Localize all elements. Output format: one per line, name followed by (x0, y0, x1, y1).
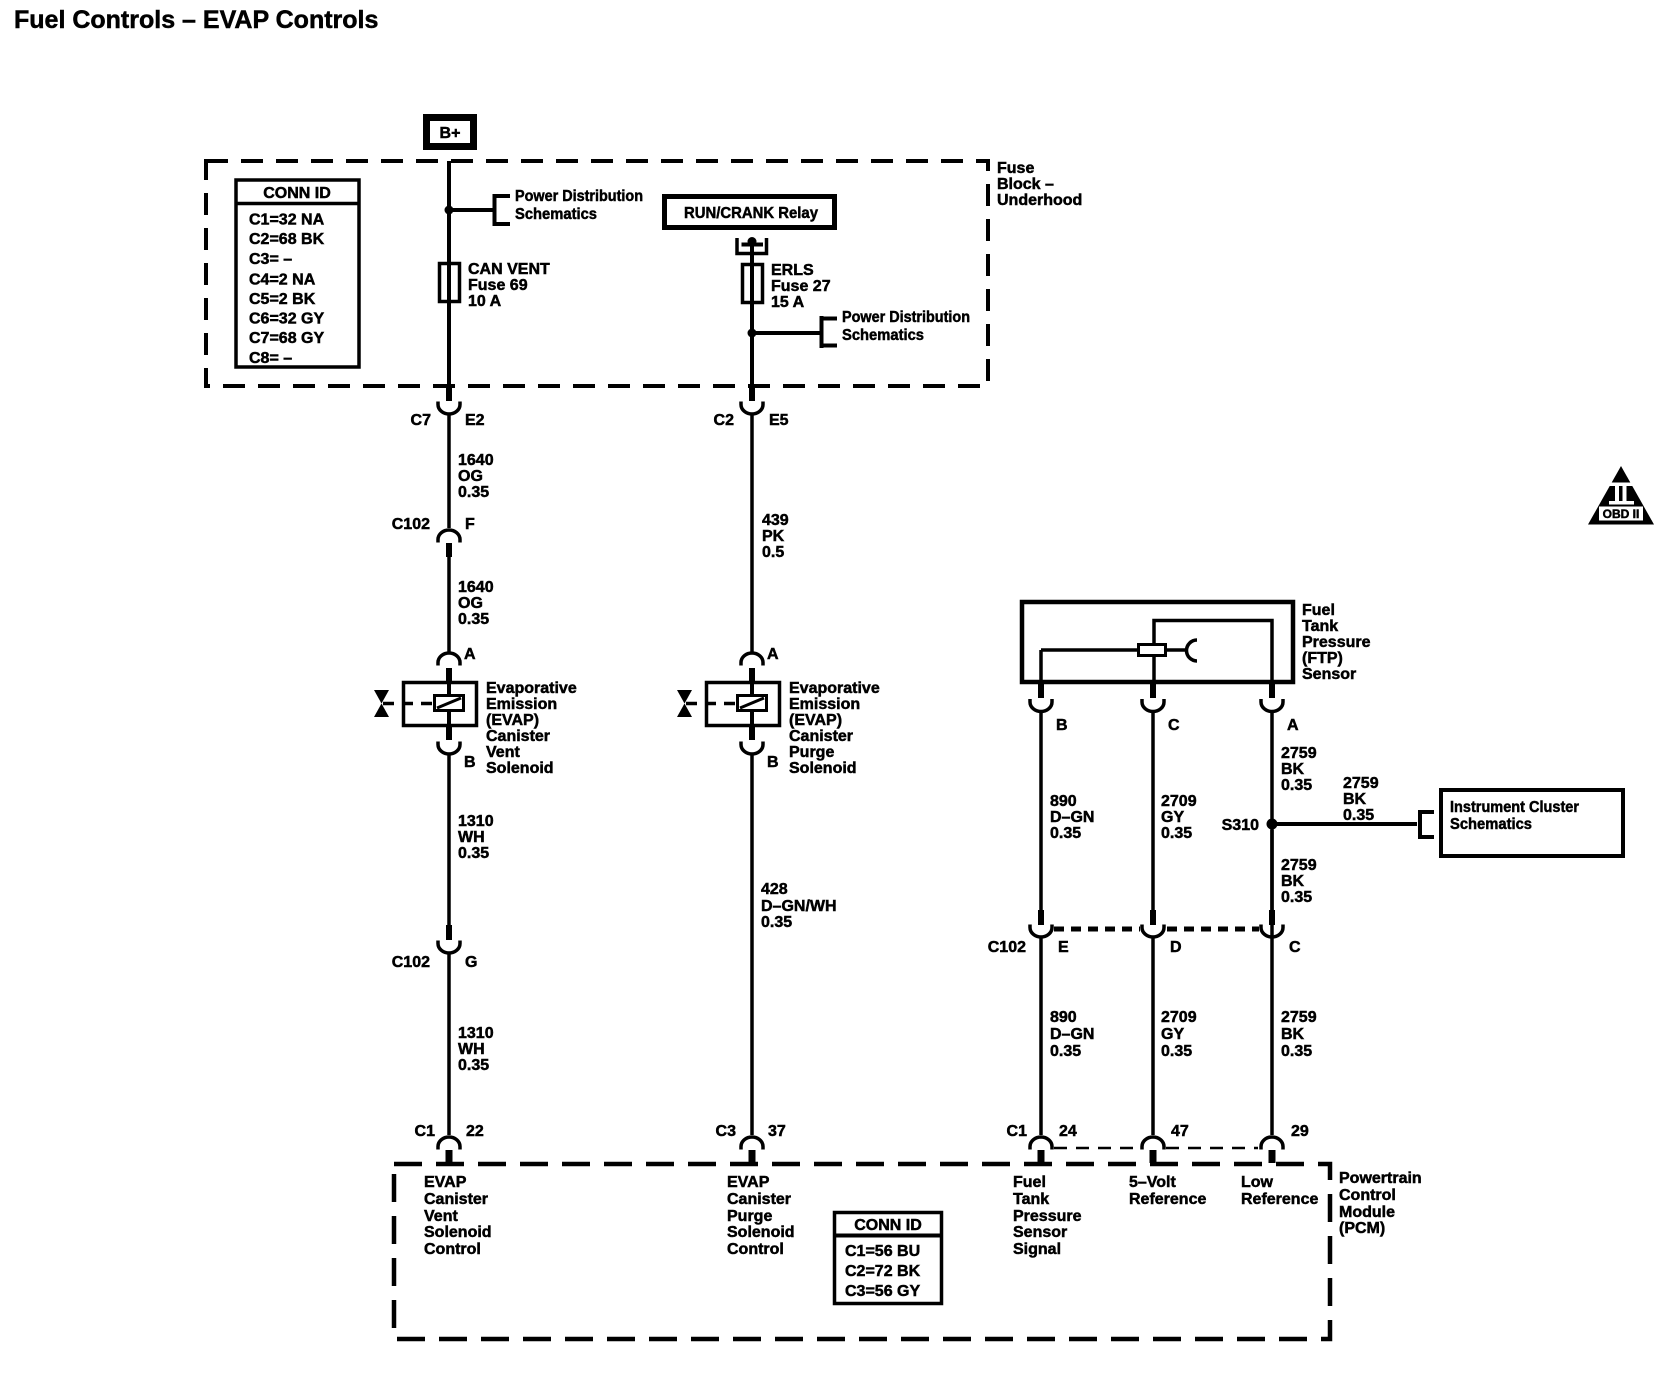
svg-text:E5: E5 (769, 412, 789, 429)
svg-text:BK: BK (1343, 791, 1367, 808)
svg-text:B+: B+ (440, 125, 461, 142)
svg-text:Solenoid: Solenoid (789, 760, 857, 777)
pin function: EVAP canister vent solenoid control (424, 1174, 492, 1258)
svg-text:C4=2 NA: C4=2 NA (249, 272, 316, 289)
svg-text:0.35: 0.35 (1050, 1043, 1081, 1060)
svg-text:Module: Module (1339, 1204, 1395, 1221)
svg-text:Block –: Block – (997, 176, 1054, 193)
pin function: low reference (1241, 1174, 1318, 1208)
svg-text:(PCM): (PCM) (1339, 1220, 1385, 1237)
svg-text:D–GN/WH: D–GN/WH (761, 898, 837, 915)
svg-text:C1: C1 (1007, 1123, 1028, 1140)
wire 890 D-GN (lower) (1041, 937, 1094, 1135)
connector C102/E (988, 910, 1069, 956)
svg-text:E: E (1058, 939, 1069, 956)
svg-text:C2: C2 (714, 412, 735, 429)
svg-text:(EVAP): (EVAP) (789, 712, 842, 729)
PCM label (1339, 1170, 1422, 1237)
svg-text:5–Volt: 5–Volt (1129, 1174, 1177, 1191)
svg-text:D–GN: D–GN (1050, 809, 1094, 826)
svg-text:47: 47 (1171, 1123, 1189, 1140)
wire 1310 WH (lower) (449, 953, 494, 1135)
svg-text:29: 29 (1291, 1123, 1309, 1140)
wire 439 PK (752, 414, 789, 652)
connector C (FTP) (1142, 684, 1180, 734)
svg-text:C: C (1289, 939, 1301, 956)
svg-text:439: 439 (762, 512, 789, 529)
wire relay to ERLS fuse (750, 241, 754, 384)
EVAP canister purge solenoid (677, 680, 880, 777)
svg-text:GY: GY (1161, 809, 1184, 826)
svg-text:Powertrain: Powertrain (1339, 1170, 1422, 1187)
svg-text:WH: WH (458, 829, 485, 846)
svg-text:G: G (465, 954, 477, 971)
svg-text:Fuse 27: Fuse 27 (771, 278, 831, 295)
wire 2759 BK (upper) (1272, 711, 1317, 910)
svg-text:D–GN: D–GN (1050, 1026, 1094, 1043)
svg-text:Emission: Emission (486, 696, 557, 713)
svg-text:0.35: 0.35 (458, 484, 489, 501)
svg-text:22: 22 (466, 1123, 484, 1140)
wire 1640 OG (upper) (449, 414, 494, 528)
fuel tank pressure (FTP) sensor (1022, 602, 1371, 683)
svg-text:0.35: 0.35 (1281, 1043, 1312, 1060)
svg-text:Schematics: Schematics (842, 327, 924, 344)
svg-text:E2: E2 (465, 412, 485, 429)
svg-text:Solenoid: Solenoid (424, 1224, 492, 1241)
svg-text:0.35: 0.35 (458, 611, 489, 628)
svg-text:C1=56 BU: C1=56 BU (845, 1243, 920, 1260)
svg-text:Emission: Emission (789, 696, 860, 713)
svg-text:Sensor: Sensor (1302, 666, 1356, 683)
svg-text:ERLS: ERLS (771, 262, 814, 279)
svg-text:C102: C102 (392, 954, 430, 971)
svg-text:C2=72 BK: C2=72 BK (845, 1263, 921, 1280)
svg-text:10 A: 10 A (468, 293, 502, 310)
svg-text:C102: C102 (988, 939, 1026, 956)
svg-text:B: B (767, 754, 779, 771)
EVAP canister vent solenoid (374, 680, 577, 777)
svg-text:890: 890 (1050, 1009, 1077, 1026)
CONN ID table (PCM) (835, 1213, 942, 1304)
svg-text:(FTP): (FTP) (1302, 650, 1343, 667)
svg-text:A: A (1287, 717, 1299, 734)
junction dot left (445, 206, 454, 215)
wire branch to power distribution reference (middle) (752, 331, 821, 335)
svg-text:Control: Control (424, 1241, 481, 1258)
svg-text:WH: WH (458, 1041, 485, 1058)
pin function: fuel tank pressure sensor signal (1013, 1174, 1082, 1258)
svg-text:Tank: Tank (1302, 618, 1338, 635)
svg-text:1640: 1640 (458, 579, 494, 596)
svg-text:Sensor: Sensor (1013, 1224, 1067, 1241)
connector A (vent solenoid) (438, 646, 476, 682)
svg-text:Schematics: Schematics (515, 206, 597, 223)
wire CAN VENT fuse to C7 (446, 384, 452, 401)
RUN/CRANK relay (665, 197, 835, 228)
svg-text:D: D (1170, 939, 1182, 956)
wire 2709 GY (upper) (1153, 711, 1197, 910)
connector B (purge solenoid) (741, 727, 779, 771)
svg-text:1640: 1640 (458, 452, 494, 469)
B+ power symbol (427, 118, 474, 147)
pin function: 5-volt reference (1129, 1174, 1206, 1208)
svg-text:Power Distribution: Power Distribution (842, 309, 970, 326)
svg-text:Fuel: Fuel (1013, 1174, 1046, 1191)
svg-text:C7: C7 (411, 412, 432, 429)
svg-text:C3= –: C3= – (249, 251, 292, 268)
svg-text:Fuse 69: Fuse 69 (468, 277, 528, 294)
wire branch to power distribution reference (449, 208, 494, 212)
pin function: EVAP canister purge solenoid control (727, 1174, 795, 1258)
svg-text:PK: PK (762, 528, 785, 545)
svg-text:(EVAP): (EVAP) (486, 712, 539, 729)
svg-text:Solenoid: Solenoid (486, 760, 554, 777)
svg-text:GY: GY (1161, 1026, 1184, 1043)
dashed connector line C102 row (1054, 927, 1259, 932)
svg-text:2709: 2709 (1161, 793, 1197, 810)
svg-text:A: A (767, 646, 779, 663)
svg-text:CAN VENT: CAN VENT (468, 261, 550, 278)
svg-text:C3: C3 (716, 1123, 737, 1140)
power distribution schematics reference (middle) (822, 309, 971, 348)
wire 2709 GY (lower) (1153, 937, 1197, 1135)
connector D (C102) (1142, 910, 1182, 956)
svg-text:CONN ID: CONN ID (854, 1217, 922, 1234)
svg-text:C3=56 GY: C3=56 GY (845, 1283, 920, 1300)
splice S310 (1222, 817, 1278, 834)
svg-text:C102: C102 (392, 516, 430, 533)
connector 47 (PCM) (1142, 1123, 1189, 1163)
svg-text:0.35: 0.35 (458, 845, 489, 862)
connector 29 (PCM) (1261, 1123, 1309, 1163)
svg-text:Pressure: Pressure (1013, 1208, 1082, 1225)
svg-text:C7=68 GY: C7=68 GY (249, 330, 324, 347)
svg-text:890: 890 (1050, 793, 1077, 810)
svg-text:Solenoid: Solenoid (727, 1224, 795, 1241)
OBD II symbol (1588, 466, 1654, 525)
svg-text:0.35: 0.35 (1343, 807, 1374, 824)
wire ERLS fuse to C2 (749, 384, 755, 401)
svg-text:BK: BK (1281, 1026, 1305, 1043)
svg-text:0.5: 0.5 (762, 544, 784, 561)
svg-text:C1: C1 (415, 1123, 436, 1140)
svg-text:BK: BK (1281, 761, 1305, 778)
connector C7/E2 (411, 402, 485, 430)
svg-text:Reference: Reference (1129, 1191, 1206, 1208)
fuse block underhood dashed box (206, 161, 988, 386)
svg-text:Tank: Tank (1013, 1191, 1049, 1208)
svg-text:Schematics: Schematics (1450, 816, 1532, 833)
svg-text:C: C (1168, 717, 1180, 734)
svg-text:Purge: Purge (789, 744, 834, 761)
connector C (C102) (1261, 910, 1301, 956)
svg-text:0.35: 0.35 (761, 914, 792, 931)
svg-text:37: 37 (768, 1123, 786, 1140)
fuse block label (997, 160, 1082, 209)
svg-text:Control: Control (727, 1241, 784, 1258)
svg-text:C8= –: C8= – (249, 350, 292, 367)
dashed connector line PCM row (1054, 1147, 1258, 1150)
svg-text:Instrument Cluster: Instrument Cluster (1450, 799, 1579, 816)
wire 890 D-GN (upper) (1041, 711, 1094, 910)
svg-text:EVAP: EVAP (424, 1174, 467, 1191)
connector C1/24 (PCM) (1007, 1123, 1077, 1163)
wire 1310 WH (upper) (449, 753, 494, 925)
svg-text:15 A: 15 A (771, 294, 805, 311)
svg-text:0.35: 0.35 (1281, 777, 1312, 794)
svg-text:Underhood: Underhood (997, 192, 1082, 209)
svg-text:Power Distribution: Power Distribution (515, 188, 643, 205)
svg-text:OBD II: OBD II (1603, 507, 1640, 521)
svg-text:24: 24 (1059, 1123, 1077, 1140)
connector B (vent solenoid) (438, 727, 476, 771)
svg-text:Vent: Vent (424, 1208, 458, 1225)
connector C3/37 (PCM) (716, 1123, 786, 1163)
svg-text:RUN/CRANK Relay: RUN/CRANK Relay (684, 205, 818, 222)
svg-text:Pressure: Pressure (1302, 634, 1371, 651)
svg-text:C6=32 GY: C6=32 GY (249, 311, 324, 328)
svg-text:CONN ID: CONN ID (263, 185, 331, 202)
svg-text:1310: 1310 (458, 813, 494, 830)
svg-text:Canister: Canister (486, 728, 550, 745)
svg-text:Reference: Reference (1241, 1191, 1318, 1208)
svg-text:2759: 2759 (1281, 1009, 1317, 1026)
svg-text:Canister: Canister (789, 728, 853, 745)
connector C102/F (392, 516, 475, 557)
svg-text:B: B (1056, 717, 1068, 734)
svg-text:0.35: 0.35 (458, 1057, 489, 1074)
svg-text:C5=2 BK: C5=2 BK (249, 291, 316, 308)
junction dot middle (748, 329, 757, 338)
svg-text:0.35: 0.35 (1050, 825, 1081, 842)
svg-text:0.35: 0.35 (1161, 1043, 1192, 1060)
svg-text:S310: S310 (1222, 817, 1259, 834)
power distribution schematics reference (left) (495, 188, 644, 226)
svg-text:A: A (464, 646, 476, 663)
svg-text:Purge: Purge (727, 1208, 772, 1225)
svg-text:2759: 2759 (1281, 745, 1317, 762)
svg-text:1310: 1310 (458, 1025, 494, 1042)
relay socket terminal (737, 237, 767, 254)
fuse ERLS 27 (743, 262, 831, 311)
wire 2759 BK (below S310) (1281, 857, 1317, 906)
svg-text:EVAP: EVAP (727, 1174, 770, 1191)
connector A (purge solenoid) (741, 646, 779, 682)
svg-text:C2=68 BK: C2=68 BK (249, 231, 325, 248)
svg-text:Fuse: Fuse (997, 160, 1034, 177)
wire B+ to CAN VENT fuse (447, 161, 451, 384)
instrument cluster schematics reference (1420, 790, 1623, 856)
svg-text:Signal: Signal (1013, 1241, 1061, 1258)
svg-text:Fuel Controls – EVAP Controls: Fuel Controls – EVAP Controls (14, 6, 378, 34)
svg-text:Low: Low (1241, 1174, 1274, 1191)
svg-text:OG: OG (458, 468, 483, 485)
svg-text:C1=32 NA: C1=32 NA (249, 212, 325, 229)
wire 1640 OG (lower) (449, 556, 494, 652)
svg-text:Canister: Canister (727, 1191, 791, 1208)
connector A (FTP) (1261, 684, 1299, 734)
svg-text:0.35: 0.35 (1161, 825, 1192, 842)
svg-text:Control: Control (1339, 1187, 1396, 1204)
powertrain control module dashed box (394, 1164, 1330, 1339)
connector C2/E5 (714, 402, 789, 430)
svg-text:0.35: 0.35 (1281, 889, 1312, 906)
fuse CAN VENT 69 (440, 261, 551, 310)
svg-text:F: F (465, 516, 475, 533)
CONN ID table (fuse block) (236, 180, 359, 367)
svg-text:Evaporative: Evaporative (486, 680, 577, 697)
svg-text:2709: 2709 (1161, 1009, 1197, 1026)
connector C102/G (392, 925, 478, 971)
svg-text:Evaporative: Evaporative (789, 680, 880, 697)
wire S310 to instrument cluster (1272, 775, 1417, 824)
svg-text:428: 428 (761, 881, 788, 898)
svg-text:2759: 2759 (1343, 775, 1379, 792)
svg-text:Vent: Vent (486, 744, 520, 761)
connector B (FTP) (1030, 684, 1068, 734)
connector C1/22 (PCM) (415, 1123, 484, 1163)
svg-text:Canister: Canister (424, 1191, 488, 1208)
svg-text:Fuel: Fuel (1302, 602, 1335, 619)
svg-text:OG: OG (458, 595, 483, 612)
svg-text:2759: 2759 (1281, 857, 1317, 874)
wire 428 D-GN/WH (752, 753, 837, 1135)
svg-text:BK: BK (1281, 873, 1305, 890)
svg-text:B: B (464, 754, 476, 771)
wire 2759 BK (lower) (1272, 830, 1317, 1135)
